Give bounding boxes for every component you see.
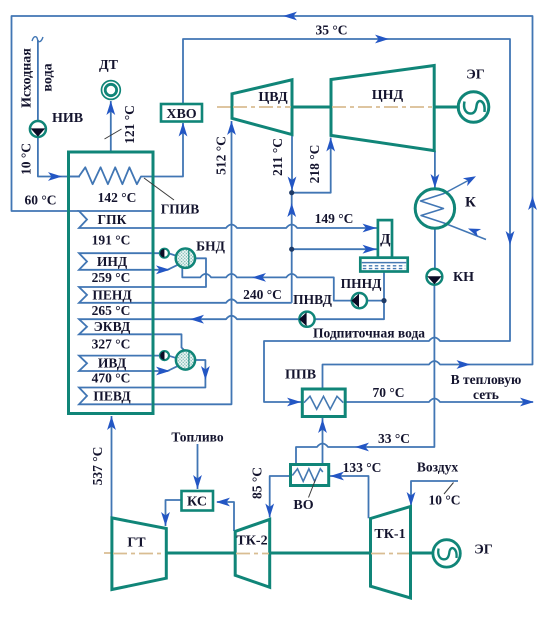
svg-text:149 °С: 149 °С bbox=[315, 211, 354, 226]
banner ИВД bbox=[79, 356, 152, 371]
compressor ТК-2 bbox=[235, 519, 270, 587]
arrow left ТК-2 air to КС bbox=[216, 498, 230, 507]
drum БНД bbox=[176, 249, 195, 268]
turbine ЦНД bbox=[331, 66, 434, 151]
wire 85C ВО left to ТК-2 bbox=[270, 476, 291, 518]
arrow left 33C bbox=[355, 443, 369, 452]
wire БНД steam to ПЕНД bbox=[152, 258, 206, 287]
pump ПНВД bbox=[299, 312, 315, 327]
callout ГПИВ bbox=[144, 178, 174, 200]
wire ГПИВ out to ХВО bbox=[152, 123, 184, 177]
deaerator Д tank bbox=[360, 258, 407, 272]
pump НИВ bbox=[30, 121, 46, 137]
wire deaerator steam tap bbox=[292, 248, 378, 250]
svg-text:В тепловую: В тепловую bbox=[451, 372, 522, 387]
banner ЭКВД bbox=[79, 319, 152, 334]
arrow up ПЕНД steam bbox=[287, 203, 296, 217]
arrow right БВД riser bbox=[156, 367, 170, 376]
wire 149C ГПК bottom to deaerator bbox=[152, 225, 378, 229]
wire condenser to КН bbox=[434, 228, 436, 269]
svg-text:133 °С: 133 °С bbox=[343, 460, 382, 475]
arrow right 149C into Д bbox=[363, 224, 377, 233]
svg-text:512 °С: 512 °С bbox=[214, 136, 229, 175]
wire 240C feed line to БНД bbox=[182, 268, 352, 301]
callout lines bbox=[105, 129, 454, 498]
arrow down fuel into КС bbox=[193, 475, 202, 489]
svg-text:ТК-2: ТК-2 bbox=[236, 534, 267, 549]
compressor ТК-1 bbox=[371, 507, 411, 599]
arrow left on top border bbox=[283, 12, 297, 21]
cooler ВО bbox=[291, 465, 329, 486]
component ХВО box bbox=[161, 104, 202, 122]
svg-text:211 °С: 211 °С bbox=[270, 138, 285, 176]
svg-text:Подпиточная вода: Подпиточная вода bbox=[313, 326, 425, 341]
arrow up to ДТ bbox=[106, 101, 115, 115]
svg-text:ПЕВД: ПЕВД bbox=[93, 389, 131, 404]
svg-text:470 °С: 470 °С bbox=[92, 371, 131, 386]
svg-text:218 °С: 218 °С bbox=[307, 145, 322, 184]
wire ПЕНД bottom ext bbox=[152, 299, 292, 303]
wire БНД riser arrow line bbox=[152, 265, 178, 270]
arrow up into ЦВД bbox=[227, 121, 236, 135]
svg-text:60 °С: 60 °С bbox=[24, 193, 56, 208]
wire ПНВД to ЭКВД bbox=[152, 316, 300, 320]
callout 121C bbox=[105, 129, 122, 139]
svg-text:ПННД: ПННД bbox=[341, 276, 383, 291]
svg-text:142 °С: 142 °С bbox=[98, 190, 137, 205]
svg-text:240 °С: 240 °С bbox=[243, 287, 282, 302]
arrow down ЦНД exhaust to К bbox=[431, 174, 440, 188]
shaft dashdot inside turbines bbox=[113, 107, 433, 554]
svg-text:33 °С: 33 °С bbox=[378, 431, 410, 446]
svg-text:Д: Д bbox=[380, 232, 391, 248]
wire КС to ГТ bbox=[166, 500, 182, 526]
svg-text:ВО: ВО bbox=[293, 498, 313, 513]
svg-text:НИВ: НИВ bbox=[52, 111, 83, 126]
banner ПЕНД bbox=[79, 287, 152, 303]
arrow up into ЦНД bbox=[326, 138, 335, 152]
wire БВД riser arrow line bbox=[152, 366, 178, 371]
svg-text:70 °С: 70 °С bbox=[372, 385, 404, 400]
wire cooling water through К bbox=[421, 177, 487, 239]
wire Топливо fuel to КС bbox=[197, 444, 199, 489]
svg-text:ПНВД: ПНВД bbox=[293, 292, 332, 307]
wire break symbol bbox=[32, 37, 43, 42]
shaft dash-dot lines bbox=[104, 107, 433, 553]
banner ПЕВД bbox=[79, 388, 152, 405]
svg-text:КС: КС bbox=[187, 495, 207, 510]
arrow right steam tap into Д bbox=[363, 245, 377, 254]
wire БНД valve line bbox=[152, 253, 177, 256]
svg-text:ГПК: ГПК bbox=[98, 212, 127, 227]
wire ЦВД exhaust down bbox=[291, 135, 293, 193]
svg-text:Воздух: Воздух bbox=[417, 460, 459, 475]
svg-text:ЦВД: ЦВД bbox=[258, 90, 288, 105]
arrow down КС to ГТ bbox=[161, 512, 170, 526]
callout ВО bbox=[309, 480, 316, 498]
valve БВД bbox=[160, 351, 169, 360]
wire 133C ВО right to ТК-1 bbox=[329, 476, 369, 518]
wire 512C main steam ПЕВД to ЦВД bbox=[152, 121, 232, 404]
svg-text:КН: КН bbox=[453, 270, 474, 285]
pump КН bbox=[427, 269, 443, 285]
condenser К bbox=[415, 189, 454, 228]
junction dots bbox=[289, 190, 387, 303]
boiler HRSG box bbox=[69, 152, 154, 414]
component ДТ chimney bbox=[102, 81, 121, 100]
component КС box bbox=[182, 491, 214, 511]
wire outer loop: ППВ top to ГПК feed 60C bbox=[12, 16, 533, 389]
svg-text:К: К bbox=[465, 195, 476, 211]
arrow right on y364.5 bbox=[457, 360, 471, 369]
arrow up on x532.5 bbox=[528, 196, 537, 210]
svg-text:сеть: сеть bbox=[473, 387, 499, 402]
svg-text:ЭГ: ЭГ bbox=[474, 543, 492, 558]
svg-text:265 °С: 265 °С bbox=[92, 303, 131, 318]
arrow cooling in bbox=[468, 229, 481, 238]
wire ППВ bottom to ВО top bbox=[322, 417, 324, 471]
svg-text:Исходная: Исходная bbox=[20, 48, 35, 108]
arrow up into ХВО bbox=[179, 123, 188, 137]
arrow up ВО to ППВ bbox=[318, 419, 327, 433]
svg-text:537 °С: 537 °С bbox=[90, 447, 105, 486]
wire БВД steam to ПЕВД bbox=[152, 360, 205, 388]
pump ПННД bbox=[351, 293, 367, 308]
wire ДТ flue bbox=[110, 101, 112, 152]
svg-text:БНД: БНД bbox=[196, 239, 225, 254]
svg-text:121 °С: 121 °С bbox=[122, 105, 137, 144]
turbine ЦВД bbox=[232, 80, 292, 135]
wire ТК-2 to КС bbox=[217, 502, 234, 531]
svg-text:ЭКВД: ЭКВД bbox=[94, 319, 131, 334]
svg-text:ЭГ: ЭГ bbox=[466, 68, 484, 83]
arrow right 70C exit bbox=[520, 398, 534, 407]
wire 35C makeup: ХВО to ППВ bbox=[183, 39, 510, 402]
svg-text:85 °С: 85 °С bbox=[250, 467, 265, 499]
wire ЭКВД to БВД drum bbox=[152, 334, 184, 350]
wire 537C exhaust to boiler bbox=[111, 416, 113, 518]
drum БВД bbox=[176, 350, 195, 369]
arrow left 240C bbox=[252, 273, 266, 282]
deaerator Д column bbox=[378, 220, 392, 258]
svg-text:ТК-1: ТК-1 bbox=[374, 527, 405, 542]
arrow right on 35C line bbox=[375, 35, 389, 44]
svg-text:Топливо: Топливо bbox=[171, 430, 223, 445]
arrow right БНД riser bbox=[156, 265, 170, 274]
generator ЭГ top bbox=[458, 92, 489, 123]
svg-text:ГТ: ГТ bbox=[127, 536, 146, 551]
arrow down ЦВД exhaust bbox=[288, 177, 297, 191]
svg-text:ИВД: ИВД bbox=[98, 356, 127, 371]
heater ППВ bbox=[302, 389, 345, 417]
wire ГПИВ zigzag bbox=[69, 167, 152, 184]
wire condensate КН down to 33C into ВО bbox=[296, 285, 434, 465]
svg-text:вода: вода bbox=[41, 63, 56, 91]
svg-text:35 °С: 35 °С bbox=[315, 23, 347, 38]
arrows bbox=[48, 12, 537, 526]
wire Воздух air intake to ТК-1 bbox=[411, 481, 458, 506]
svg-text:ГПИВ: ГПИВ bbox=[161, 202, 200, 217]
arrow cooling out bbox=[463, 176, 476, 186]
svg-text:259 °С: 259 °С bbox=[92, 270, 131, 285]
svg-text:10 °С: 10 °С bbox=[428, 493, 460, 508]
arrow left ПНВД to ЭКВД bbox=[190, 315, 204, 324]
svg-text:ИНД: ИНД bbox=[97, 254, 128, 269]
arrow down БВД steam bbox=[201, 366, 210, 380]
generator ЭГ bottom bbox=[433, 540, 460, 567]
wire deaerator to feed pumps bbox=[315, 272, 385, 320]
banners inside boiler bbox=[79, 211, 152, 404]
svg-text:ХВО: ХВО bbox=[166, 107, 196, 122]
wire 70C to network bbox=[345, 399, 533, 403]
wire БВД valve line bbox=[152, 356, 177, 359]
wire НИВ raw water line bbox=[38, 40, 80, 177]
svg-text:ДТ: ДТ bbox=[99, 58, 119, 73]
banner ГПК bbox=[79, 211, 152, 228]
shaft segments teal bbox=[166, 107, 460, 553]
arrow down on x510 bbox=[506, 231, 515, 245]
wire crossover to ЦНД bbox=[292, 138, 331, 193]
arrow down 85C into ТК-2 bbox=[265, 504, 274, 518]
banner ИНД bbox=[79, 253, 152, 270]
arrow left 133C into ВО bbox=[330, 472, 344, 481]
arrow right НИВ into boiler bbox=[48, 172, 62, 181]
callout 10C air bbox=[444, 483, 454, 495]
turbine ГТ bbox=[112, 518, 166, 590]
arrow right into ППВ bbox=[287, 398, 301, 407]
wire ЦНД exhaust to condenser bbox=[434, 151, 436, 189]
svg-text:ППВ: ППВ bbox=[285, 368, 316, 383]
svg-text:327 °С: 327 °С bbox=[92, 337, 131, 352]
arrow up 537C into boiler bbox=[107, 416, 116, 430]
svg-text:ПЕНД: ПЕНД bbox=[92, 288, 132, 303]
svg-text:ЦНД: ЦНД bbox=[372, 88, 404, 103]
svg-text:191 °С: 191 °С bbox=[92, 233, 131, 248]
svg-text:10 °С: 10 °С bbox=[19, 143, 34, 175]
valve БНД bbox=[160, 249, 169, 258]
arrow down air into ТК-1 bbox=[407, 492, 416, 506]
wire ПЕНД steam up to crossover bbox=[291, 193, 293, 303]
